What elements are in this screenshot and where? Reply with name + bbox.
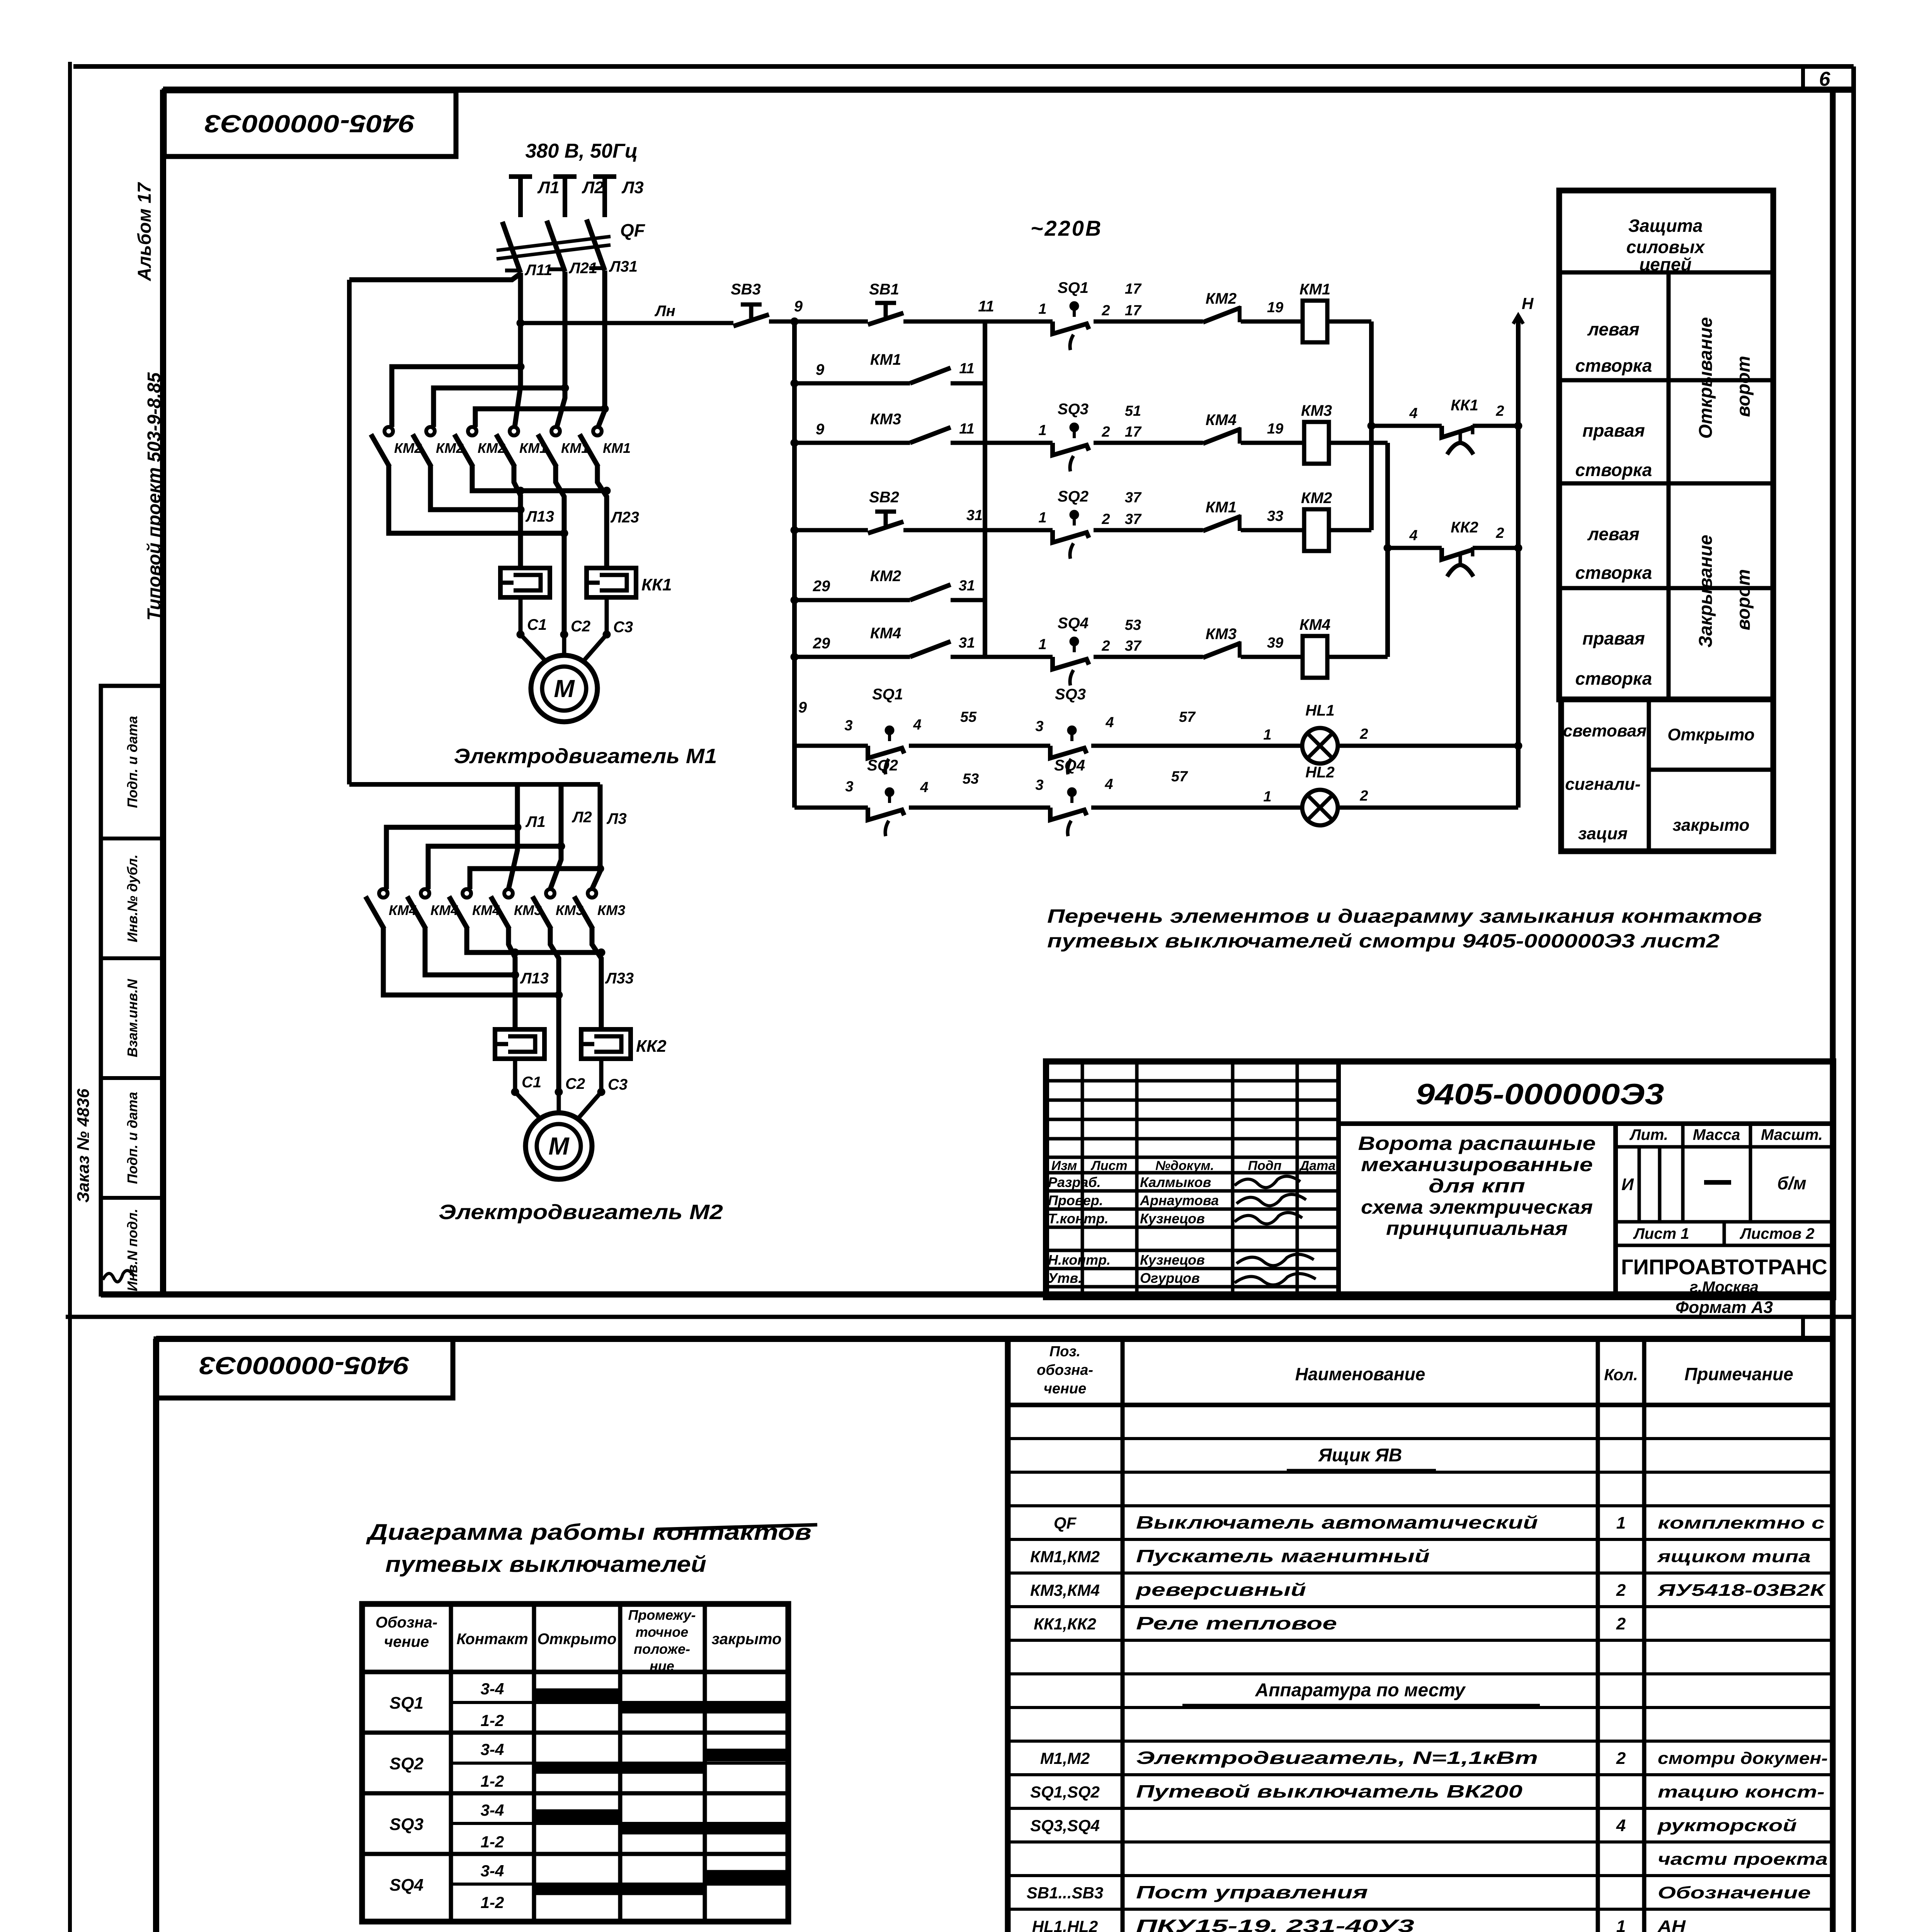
svg-text:11: 11: [978, 298, 994, 315]
diagram table sub row lines: [451, 1701, 788, 1704]
svg-text:2: 2: [1101, 511, 1110, 527]
title block Лист row: [1616, 1220, 1833, 1224]
svg-text:Электродвигатель М2: Электродвигатель М2: [439, 1201, 723, 1224]
svg-text:Подп. и дата: Подп. и дата: [124, 1092, 140, 1184]
wire from heater A to C1: [519, 597, 523, 634]
state bar SQ2 contact 1-2 open+mid: [534, 1762, 705, 1774]
svg-text:левая: левая: [1587, 524, 1639, 544]
svg-text:3: 3: [844, 718, 852, 734]
svg-text:Огурцов: Огурцов: [1140, 1270, 1200, 1286]
svg-text:реверсивный: реверсивный: [1135, 1580, 1306, 1600]
svg-text:Формат А3: Формат А3: [1675, 1298, 1773, 1317]
svg-text:Обозна-: Обозна-: [376, 1614, 437, 1631]
motor M2 symbol: [526, 1113, 592, 1179]
svg-text:С3: С3: [608, 1076, 628, 1093]
svg-text:для кпп: для кпп: [1429, 1175, 1525, 1197]
svg-text:Промежу-: Промежу-: [628, 1607, 696, 1623]
svg-text:ворот: ворот: [1733, 569, 1754, 630]
motor lead Л33 wire: [597, 466, 607, 568]
circuit breaker QF pole 3: [587, 219, 605, 270]
title block left grid verticals: [1081, 1061, 1084, 1297]
state bar SQ4 contact 3-4 closed: [705, 1870, 788, 1883]
svg-text:Л3: Л3: [621, 178, 644, 197]
svg-text:Л31: Л31: [609, 258, 638, 275]
svg-text:положе-: положе-: [634, 1641, 690, 1657]
svg-text:створка: створка: [1575, 668, 1652, 689]
svg-text:КК2: КК2: [636, 1037, 667, 1056]
svg-text:SQ2: SQ2: [390, 1754, 424, 1773]
svg-text:створка: створка: [1575, 460, 1652, 480]
strike line over контактов: [657, 1525, 817, 1529]
state bar SQ4 contact 1-2 open+mid: [534, 1883, 705, 1895]
svg-text:Контакт: Контакт: [456, 1631, 528, 1648]
thermal contact КК1 branch wire: [1371, 424, 1442, 428]
power contact КМ3.3 of motor M2 circuit: [588, 889, 596, 898]
svg-text:HL1,HL2: HL1,HL2: [1032, 1917, 1098, 1932]
svg-text:схема электрическая: схема электрическая: [1361, 1196, 1593, 1218]
svg-text:б/м: б/м: [1777, 1173, 1806, 1193]
svg-text:~220В: ~220В: [1031, 216, 1103, 240]
svg-text:3-4: 3-4: [481, 1740, 504, 1759]
svg-text:закрыто: закрыто: [712, 1631, 782, 1648]
svg-text:Т.контр.: Т.контр.: [1048, 1211, 1109, 1226]
svg-text:Поз.: Поз.: [1050, 1344, 1081, 1360]
svg-text:Защита: Защита: [1628, 216, 1703, 236]
svg-text:2: 2: [1616, 1749, 1626, 1768]
svg-text:Л2: Л2: [572, 809, 592, 826]
svg-text:1-2: 1-2: [481, 1893, 504, 1912]
wires from КК2 heaters down: [513, 1059, 517, 1092]
svg-text:9: 9: [816, 361, 825, 378]
sheet separator line between sheets: [66, 1315, 1854, 1319]
svg-text:SQ4: SQ4: [1054, 757, 1085, 774]
limit switch contact SQ3 (3-4) lamp rung: [1050, 746, 1087, 758]
thermal contact КК2 branch wire: [1388, 546, 1442, 550]
svg-text:КК1: КК1: [641, 575, 672, 594]
svg-text:АН: АН: [1657, 1917, 1686, 1932]
wire phase 2 from QF down: [557, 272, 565, 427]
svg-text:31: 31: [959, 578, 975, 594]
sheet 1 inverted stamp box 9405-000000Э3: [164, 91, 456, 156]
svg-text:Л1: Л1: [537, 178, 560, 197]
power contact КМ4.1 of motor M2 circuit: [379, 889, 388, 898]
svg-text:17: 17: [1125, 281, 1142, 297]
motor M1 terminal C2: [560, 631, 568, 638]
parts list table frame: [1008, 1339, 1833, 1932]
svg-text:3: 3: [1035, 718, 1043, 735]
svg-text:№докум.: №докум.: [1155, 1158, 1214, 1173]
svg-text:зация: зация: [1578, 824, 1628, 843]
wire coil КМ1 to column A: [1327, 320, 1371, 324]
page outer top border line: [73, 64, 1854, 69]
function table frame: [1559, 190, 1773, 699]
svg-text:Кузнецов: Кузнецов: [1140, 1211, 1205, 1226]
title block signatures: [1235, 1176, 1300, 1187]
svg-text:принципиальная: принципиальная: [1386, 1218, 1568, 1239]
svg-text:53: 53: [963, 771, 979, 787]
svg-text:SQ3: SQ3: [390, 1815, 424, 1834]
svg-text:КК1: КК1: [1451, 397, 1478, 414]
svg-text:SB2: SB2: [869, 489, 899, 506]
svg-text:Наименование: Наименование: [1295, 1364, 1425, 1384]
svg-text:2: 2: [1101, 303, 1110, 319]
lamp rung1 wire to HL1: [1091, 744, 1302, 748]
function table vertical divider: [1667, 272, 1671, 699]
title block Лит Масса Масшт header: [1616, 1145, 1833, 1149]
limit switch contact SQ4 (3-4) lamp rung: [1050, 808, 1087, 820]
svg-text:QF: QF: [620, 220, 646, 240]
svg-text:Л21: Л21: [568, 260, 597, 277]
svg-text:закрыто: закрыто: [1672, 816, 1749, 835]
wire КК1 to right rail: [1473, 424, 1518, 428]
contactor coil КМ1: [1303, 301, 1327, 342]
svg-text:29: 29: [813, 578, 830, 595]
svg-text:тацию конст-: тацию конст-: [1658, 1782, 1825, 1801]
svg-text:Альбом 17: Альбом 17: [134, 182, 155, 282]
svg-text:части проекта: части проекта: [1658, 1850, 1828, 1869]
svg-text:SQ1: SQ1: [390, 1694, 424, 1713]
power contact КМ1.1 of motor M1 circuit: [510, 427, 518, 435]
motor M2 terminal C2: [555, 1088, 563, 1096]
svg-text:Взам.инв.N: Взам.инв.N: [124, 979, 140, 1058]
svg-text:Ворота распашные: Ворота распашные: [1358, 1133, 1596, 1154]
wire coil КМ2 to column A: [1329, 528, 1371, 532]
svg-text:Кол.: Кол.: [1604, 1366, 1638, 1384]
svg-text:SQ4: SQ4: [1058, 615, 1089, 632]
svg-text:Подп. и дата: Подп. и дата: [124, 716, 140, 808]
svg-text:Открыто: Открыто: [537, 1631, 616, 1648]
lamp rung 2 wire from rail: [794, 806, 868, 810]
motor M1 terminal C3: [603, 631, 611, 638]
svg-text:КМ2: КМ2: [1301, 490, 1332, 507]
svg-text:правая: правая: [1582, 420, 1645, 440]
svg-text:И: И: [1621, 1175, 1634, 1194]
auxiliary contact КМ2 rung5: [910, 585, 951, 600]
lamp rung 1 wire from rail: [794, 744, 868, 748]
title block Масса dash: [1704, 1180, 1731, 1185]
page outer left border line: [68, 62, 72, 1932]
title block revision rows: [1046, 1079, 1339, 1083]
svg-text:Аппаратура по месту: Аппаратура по месту: [1255, 1680, 1466, 1701]
wire 19 rung1: [1241, 320, 1303, 324]
svg-text:33: 33: [1267, 508, 1283, 524]
svg-text:4: 4: [1409, 405, 1417, 422]
auxiliary contact КМ1 rung2: [910, 368, 951, 383]
rung3 wire across column: [951, 441, 1053, 445]
svg-text:SQ1: SQ1: [872, 686, 903, 703]
svg-text:Кузнецов: Кузнецов: [1140, 1252, 1205, 1268]
page right outer border line: [1851, 66, 1856, 1932]
wire 33 rung4: [1241, 528, 1304, 532]
limit switch contact SQ2 (3-4) lamp rung: [868, 808, 904, 820]
signal table divider vertical: [1647, 699, 1651, 851]
svg-text:ящиком типа: ящиком типа: [1657, 1547, 1811, 1566]
svg-text:3-4: 3-4: [481, 1862, 504, 1880]
sheet number box 6 top right: [1801, 66, 1805, 90]
svg-text:SQ2: SQ2: [1058, 488, 1089, 505]
svg-text:19: 19: [1267, 421, 1283, 437]
sheet 1 frame top edge: [163, 87, 1854, 93]
junction Лн on phase 1: [517, 319, 524, 327]
svg-text:Открывание: Открывание: [1696, 317, 1716, 439]
svg-text:М: М: [554, 675, 575, 702]
M2 phase wire Л3: [592, 784, 600, 889]
rung2 wire to column 11: [951, 381, 985, 386]
svg-text:чение: чение: [1044, 1381, 1087, 1397]
svg-text:КМ1,КМ2: КМ1,КМ2: [1030, 1548, 1100, 1566]
svg-text:Масшт.: Масшт.: [1761, 1126, 1823, 1143]
svg-text:SQ3: SQ3: [1058, 401, 1089, 418]
supply terminal Л1: [509, 174, 532, 179]
svg-text:Типовой проект 503-9-8.85: Типовой проект 503-9-8.85: [144, 372, 165, 621]
function table row lines: [1559, 378, 1773, 383]
svg-text:2: 2: [1101, 424, 1110, 440]
svg-text:КМ3: КМ3: [870, 411, 901, 428]
wire 39 rung6: [1241, 655, 1303, 659]
circuit breaker QF linkage bar: [497, 236, 611, 250]
wire phase 3 from QF down: [598, 270, 605, 427]
pushbutton SB1: [868, 313, 903, 325]
svg-text:Электродвигатель М1: Электродвигатель М1: [454, 745, 717, 768]
svg-text:КК2: КК2: [1451, 519, 1478, 536]
svg-text:КМ4: КМ4: [1206, 412, 1237, 429]
sheet 1 frame bottom edge: [101, 1291, 1833, 1298]
svg-text:Инв.N подл.: Инв.N подл.: [124, 1209, 140, 1291]
svg-text:С1: С1: [522, 1074, 541, 1091]
power contact КМ1.2 of motor M1 circuit: [551, 427, 560, 435]
svg-text:Пост управления: Пост управления: [1136, 1882, 1368, 1902]
parts table header line: [1008, 1403, 1833, 1407]
svg-text:1: 1: [1263, 727, 1271, 743]
svg-text:С1: С1: [527, 616, 547, 633]
svg-text:Арнаутова: Арнаутова: [1140, 1192, 1219, 1208]
breaking contact КМ4 (interlock) rung3: [1203, 429, 1241, 444]
wire coil КМ3 to column B: [1329, 441, 1388, 445]
sheet 2 frame left edge: [153, 1339, 159, 1932]
svg-text:1: 1: [1038, 301, 1046, 317]
title block outer frame: [1046, 1061, 1833, 1297]
limit switch contact SQ4 (1-2) rung6: [1053, 657, 1089, 669]
motor M2 terminal C1: [511, 1088, 519, 1096]
M2 motor lead Л23: [550, 928, 559, 1092]
rung3 wire from rail: [794, 441, 910, 445]
left bypass wire loop top: [349, 274, 520, 280]
limit switch contact SQ1 (3-4) lamp rung: [868, 746, 904, 758]
rung2 wire from rail: [794, 381, 910, 386]
title block staff rows: [1046, 1156, 1339, 1159]
svg-text:КМ1: КМ1: [1206, 499, 1237, 516]
svg-text:КМ3: КМ3: [597, 902, 625, 918]
svg-text:Пускатель магнитный: Пускатель магнитный: [1136, 1546, 1430, 1566]
M2 phase wire Л1: [509, 784, 517, 889]
wire from heater B to C3: [605, 597, 609, 634]
svg-text:QF: QF: [1054, 1514, 1077, 1532]
svg-text:Обозначение: Обозначение: [1658, 1883, 1811, 1902]
svg-text:4: 4: [1104, 776, 1113, 793]
svg-text:КМ2: КМ2: [870, 568, 901, 585]
svg-text:КК1,КК2: КК1,КК2: [1034, 1615, 1096, 1633]
svg-text:SQ2: SQ2: [867, 757, 898, 774]
svg-text:HL1: HL1: [1305, 702, 1335, 719]
svg-text:39: 39: [1267, 635, 1283, 651]
M2 crossover loop to contact 1: [386, 827, 517, 889]
svg-text:Дата: Дата: [1299, 1158, 1336, 1173]
svg-text:г.Москва: г.Москва: [1690, 1279, 1759, 1296]
svg-text:смотри докумен-: смотри докумен-: [1658, 1749, 1828, 1768]
state bar SQ3 contact 3-4 open: [534, 1810, 620, 1822]
contactor coil КМ2: [1304, 509, 1329, 551]
svg-text:2: 2: [1616, 1614, 1626, 1633]
contact 1 lower wire to loop: [389, 466, 564, 533]
wire 19 rung3: [1241, 441, 1304, 445]
svg-text:SQ3,SQ4: SQ3,SQ4: [1030, 1816, 1100, 1835]
svg-text:КМ4: КМ4: [870, 625, 901, 642]
svg-text:29: 29: [813, 635, 830, 652]
svg-text:Л3: Л3: [606, 810, 627, 827]
svg-text:С3: С3: [613, 619, 633, 636]
svg-text:КМ2: КМ2: [1206, 290, 1237, 307]
ladder column B vertical: [1385, 443, 1390, 657]
svg-text:КМ1: КМ1: [870, 351, 901, 368]
svg-text:Путевой выключатель ВК200: Путевой выключатель ВК200: [1136, 1781, 1523, 1801]
breaking contact КМ1 (interlock) rung4: [1203, 516, 1241, 531]
svg-text:2: 2: [1616, 1581, 1626, 1600]
svg-text:чение: чение: [384, 1633, 429, 1650]
power contact КМ4.2 of motor M2 circuit: [421, 889, 429, 898]
title block centre/right divider: [1613, 1124, 1618, 1297]
control right rail Н: [1516, 318, 1521, 808]
svg-text:правая: правая: [1582, 628, 1645, 648]
svg-text:Л2: Л2: [582, 178, 604, 197]
svg-text:сигнали-: сигнали-: [1565, 775, 1640, 794]
lamp rung1 wire HL1 to rail: [1338, 744, 1518, 748]
svg-text:цепей: цепей: [1639, 254, 1691, 274]
svg-text:4: 4: [920, 779, 928, 796]
svg-text:SQ1: SQ1: [1058, 279, 1089, 296]
svg-text:Изм: Изм: [1051, 1158, 1077, 1173]
diagram table header bottom line: [362, 1670, 788, 1674]
svg-text:2: 2: [1495, 403, 1504, 419]
circuit breaker QF pole 1: [502, 222, 520, 273]
svg-text:Л23: Л23: [610, 509, 639, 526]
lamp rung2 wire to HL2: [1091, 806, 1302, 810]
wire КК2 to right rail: [1473, 546, 1518, 550]
svg-text:9: 9: [794, 298, 803, 315]
contact 3 lower wire to loop: [472, 466, 607, 491]
svg-text:ние: ние: [650, 1658, 674, 1674]
rung4 wire to КМ1 interlock: [1094, 528, 1203, 532]
thermal relay КК1 heater element B: [587, 568, 636, 597]
state bar SQ1 contact 3-4 open: [534, 1689, 620, 1701]
rung6 wire from rail: [794, 655, 910, 659]
svg-text:3: 3: [845, 779, 853, 795]
svg-text:9405-000000Э3: 9405-000000Э3: [199, 1352, 410, 1379]
svg-text:2: 2: [1101, 638, 1110, 654]
state bar SQ1 contact 1-2 mid+closed: [620, 1702, 788, 1713]
svg-text:ПКУ15-19. 231-40У3: ПКУ15-19. 231-40У3: [1136, 1916, 1415, 1932]
svg-text:левая: левая: [1587, 319, 1639, 339]
svg-text:КМ3: КМ3: [1206, 626, 1237, 643]
svg-text:1: 1: [1038, 422, 1046, 439]
motor M1 terminal C1: [517, 631, 524, 638]
svg-text:9405-000000Э3: 9405-000000Э3: [1416, 1078, 1664, 1111]
svg-text:Листов 2: Листов 2: [1739, 1225, 1814, 1242]
wire SB3 to rail: [769, 320, 868, 324]
thermal relay КК2 heater element A: [495, 1029, 544, 1059]
svg-text:1: 1: [1616, 1514, 1626, 1532]
svg-text:11: 11: [959, 421, 974, 437]
sheet 2 inverted stamp box 9405-000000Э3: [156, 1339, 453, 1398]
svg-text:ГИПРОАВТОТРАНС: ГИПРОАВТОТРАНС: [1621, 1255, 1827, 1279]
auxiliary contact КМ3 rung3: [910, 427, 951, 443]
svg-text:1-2: 1-2: [481, 1833, 504, 1851]
svg-text:1: 1: [1038, 636, 1046, 653]
rung1 wire SB1 to node 11: [903, 320, 1053, 324]
svg-text:Выключатель автоматический: Выключатель автоматический: [1136, 1512, 1538, 1532]
svg-text:створка: створка: [1575, 563, 1652, 583]
svg-text:механизированные: механизированные: [1361, 1154, 1593, 1175]
rung6 wire to КМ3 interlock: [1094, 655, 1203, 659]
svg-text:9405-000000Э3: 9405-000000Э3: [205, 110, 415, 138]
control left rail node 9/29/3: [792, 321, 797, 808]
M2 contact 2 lower wire loop: [425, 928, 515, 975]
parts table verticals: [1121, 1339, 1125, 1932]
svg-text:37: 37: [1125, 638, 1142, 654]
limit switch contact SQ3 (1-2) rung3: [1053, 443, 1089, 455]
svg-text:обозна-: обозна-: [1037, 1362, 1093, 1378]
svg-text:1-2: 1-2: [481, 1711, 504, 1730]
breaking contact КМ2 (interlock) rung1: [1203, 308, 1241, 322]
svg-text:53: 53: [1125, 617, 1141, 633]
function table header row line: [1559, 270, 1773, 275]
limit switch contact SQ1 (1-2) rung1: [1053, 321, 1089, 334]
svg-text:2: 2: [1359, 788, 1368, 804]
wire Лн control feed: [520, 321, 733, 325]
svg-text:точное: точное: [636, 1624, 688, 1640]
M2 contact 1 lower wire loop: [383, 928, 559, 995]
lamp rung2 wire middle: [909, 806, 1050, 810]
svg-text:Н: Н: [1522, 294, 1534, 313]
svg-text:световая: световая: [1563, 721, 1647, 740]
svg-text:9: 9: [798, 699, 807, 716]
parts table row lines: [1008, 1437, 1833, 1440]
small box at right between sheets: [1801, 1317, 1805, 1339]
sheet 2 frame top edge: [156, 1336, 1833, 1342]
crossover loop to contact 1: [392, 367, 520, 427]
svg-text:ворот: ворот: [1733, 356, 1754, 417]
svg-text:Ящик ЯВ: Ящик ЯВ: [1318, 1445, 1402, 1466]
left bypass vertical wire: [347, 280, 352, 784]
rung5 wire to column: [951, 598, 985, 602]
crossover loop to contact 2: [434, 388, 565, 427]
svg-text:КМ3,КМ4: КМ3,КМ4: [1030, 1581, 1100, 1599]
M2 motor lead Л13: [509, 928, 515, 1029]
contact 2 lower wire to loop: [430, 466, 520, 510]
svg-text:Л33: Л33: [605, 970, 634, 987]
contact diagram table frame: [362, 1604, 788, 1922]
svg-text:1: 1: [1616, 1917, 1626, 1932]
svg-text:Л13: Л13: [520, 970, 549, 987]
svg-text:57: 57: [1179, 709, 1196, 725]
motor M1 lead-in wires: [520, 634, 546, 662]
motor M2 circuit top feed rail: [349, 782, 600, 787]
M2 crossover loop to contact 3: [470, 869, 600, 889]
svg-text:31: 31: [959, 635, 975, 651]
svg-text:Лн: Лн: [654, 303, 675, 320]
power contact КМ3.1 of motor M2 circuit: [504, 889, 513, 898]
svg-text:Лист 1: Лист 1: [1633, 1225, 1689, 1242]
pushbutton SB3: [731, 321, 736, 325]
